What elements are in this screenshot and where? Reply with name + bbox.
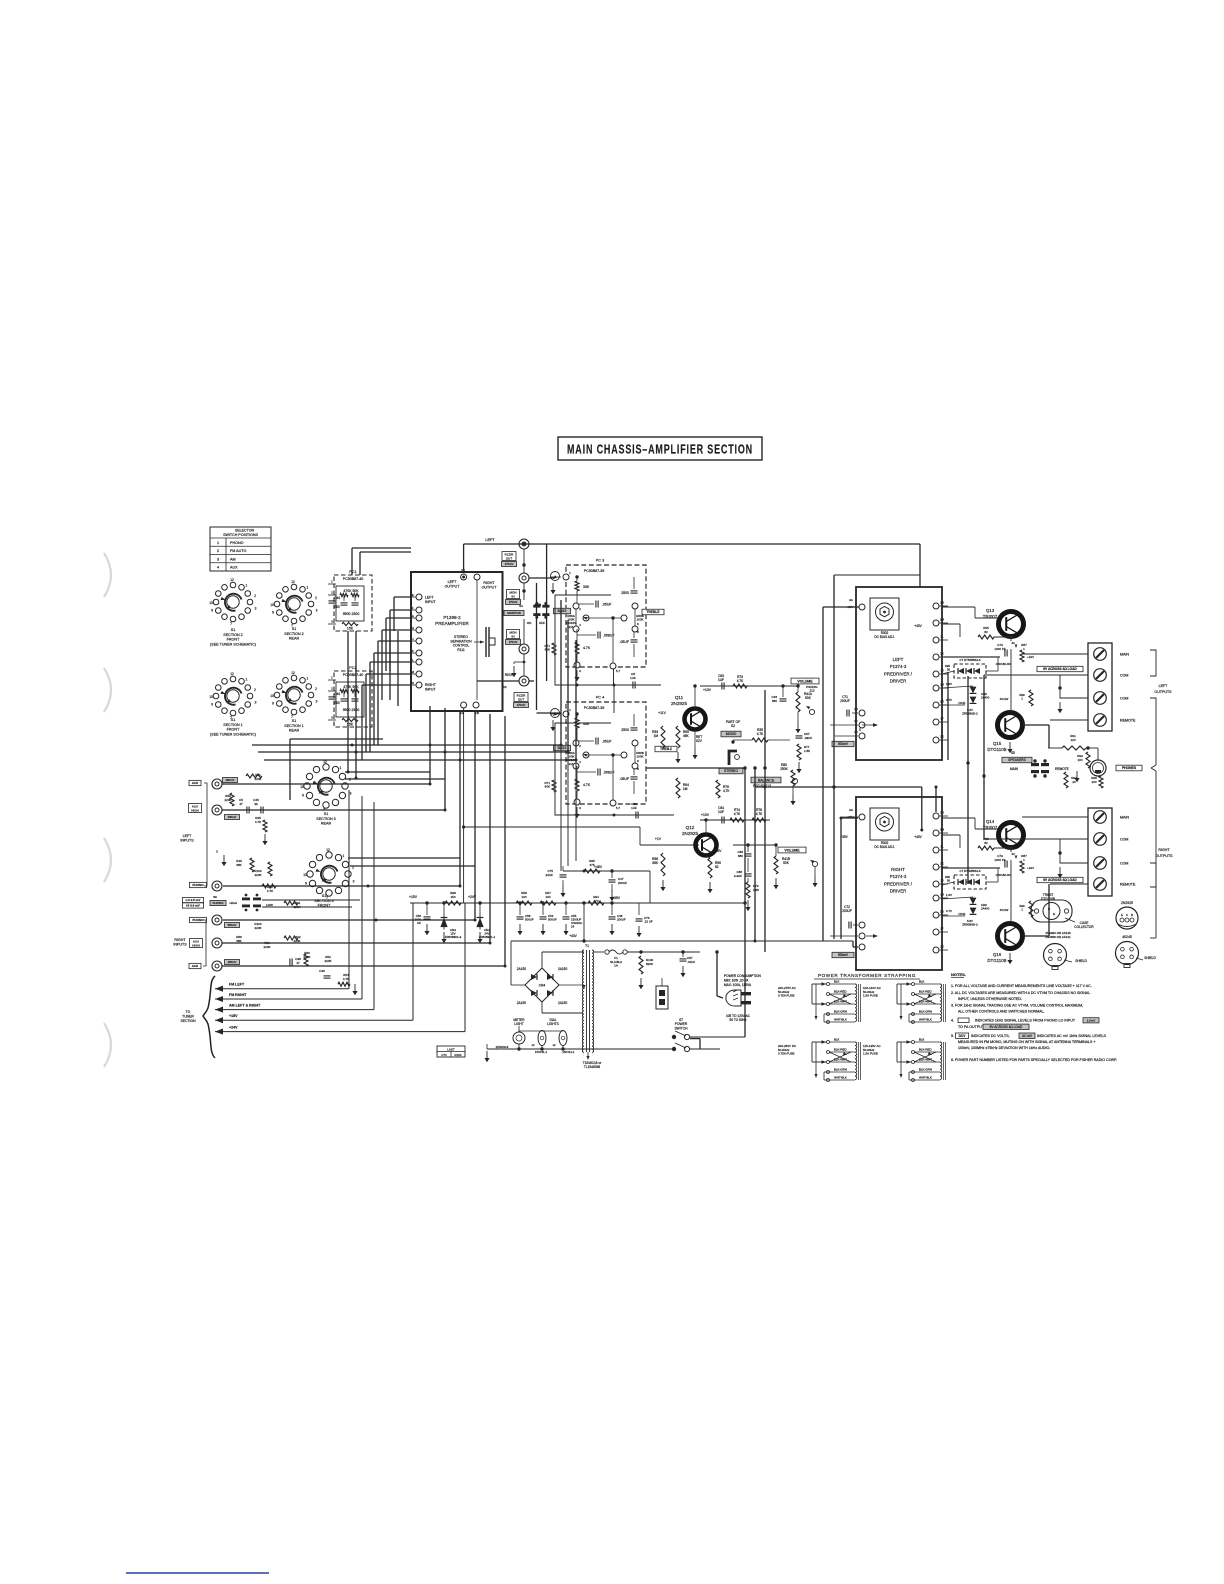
svg-text:COM: COM <box>1120 838 1128 842</box>
svg-text:PHONO: PHONO <box>192 918 204 922</box>
svg-text:47: 47 <box>239 802 243 806</box>
svg-text:MAIN: MAIN <box>1120 653 1129 657</box>
svg-text:PC 3: PC 3 <box>596 559 604 563</box>
svg-text:WHT-BLK: WHT-BLK <box>919 1018 932 1022</box>
svg-text:12: 12 <box>230 672 234 676</box>
svg-text:RIGHT: RIGHT <box>891 867 905 872</box>
svg-text:+1V: +1V <box>655 837 662 841</box>
svg-text:(SEE TUNER SCHEMATIC): (SEE TUNER SCHEMATIC) <box>210 642 256 646</box>
svg-text:9: 9 <box>272 701 274 705</box>
svg-text:NOTES.: NOTES. <box>951 972 966 977</box>
svg-text:PREAMPLIFIER: PREAMPLIFIER <box>435 621 469 626</box>
svg-text:+19V: +19V <box>1027 866 1034 870</box>
svg-text:2: 2 <box>254 594 256 598</box>
svg-text:39: 39 <box>947 667 951 671</box>
svg-text:DTG110B: DTG110B <box>1041 897 1055 901</box>
svg-text:10: 10 <box>300 785 304 789</box>
svg-text:MAIN CHASSIS–AMPLIFIER SECTION: MAIN CHASSIS–AMPLIFIER SECTION <box>567 442 753 457</box>
svg-text:TL1546038: TL1546038 <box>584 1065 600 1069</box>
svg-text:9: 9 <box>211 608 213 612</box>
svg-text:BLK-GRN: BLK-GRN <box>919 1068 932 1072</box>
svg-text:3N: 3N <box>940 811 944 815</box>
svg-text:SECTION 2: SECTION 2 <box>223 633 242 637</box>
svg-text:2A150: 2A150 <box>558 1001 567 1005</box>
svg-text:LIGHT: LIGHT <box>514 1022 523 1026</box>
svg-text:60K: 60K <box>545 648 550 652</box>
svg-text:S5: S5 <box>1011 751 1015 755</box>
svg-text:P1398-2: P1398-2 <box>443 615 461 620</box>
svg-text:LEFT: LEFT <box>485 538 495 542</box>
svg-text:RIGHT: RIGHT <box>425 683 437 687</box>
svg-text:5,7: 5,7 <box>616 669 621 673</box>
svg-text:10: 10 <box>270 603 274 607</box>
svg-text:12: 12 <box>326 848 330 852</box>
svg-text:RIGHT: RIGHT <box>483 581 495 585</box>
svg-text:820K: 820K <box>646 962 653 966</box>
svg-text:SHIELD: SHIELD <box>1144 956 1156 960</box>
svg-text:2: 2 <box>315 596 317 600</box>
svg-text:40: 40 <box>1011 852 1015 856</box>
svg-text:7: 7 <box>230 622 232 626</box>
svg-text:3F: 3F <box>940 927 944 931</box>
svg-text:170mV: 170mV <box>509 600 518 604</box>
svg-text:SECTION 1: SECTION 1 <box>284 724 303 728</box>
svg-text:LOW: LOW <box>266 903 273 907</box>
svg-text:560: 560 <box>334 701 340 705</box>
svg-text:12: 12 <box>291 671 295 675</box>
svg-text:SWITCH POSITIONS: SWITCH POSITIONS <box>223 533 258 537</box>
svg-text:170mV: 170mV <box>517 703 526 707</box>
svg-text:DRIVER: DRIVER <box>890 679 907 684</box>
svg-text:MAIN: MAIN <box>1010 767 1019 771</box>
svg-text:TUNER: TUNER <box>182 1014 194 1018</box>
svg-text:33K: 33K <box>583 585 590 589</box>
svg-text:Q15: Q15 <box>993 741 1002 746</box>
svg-text:INPUT: INPUT <box>425 688 436 692</box>
svg-text:PREDRIVER /: PREDRIVER / <box>884 671 913 676</box>
svg-text:S1: S1 <box>292 627 297 631</box>
svg-text:+39V: +39V <box>612 896 621 900</box>
svg-text:1C: 1C <box>503 685 507 689</box>
svg-text:250009-8: 250009-8 <box>496 1045 509 1049</box>
svg-text:CR4: CR4 <box>539 984 546 988</box>
svg-text:1.8K: 1.8K <box>753 888 759 892</box>
svg-text:C46: C46 <box>319 969 325 973</box>
svg-text:2: 2 <box>315 687 317 691</box>
svg-text:MONO: MONO <box>726 732 737 736</box>
svg-text:DC BIAS ADJ.: DC BIAS ADJ. <box>874 635 894 639</box>
svg-text:02V: 02V <box>696 739 703 743</box>
svg-text:82: 82 <box>715 865 719 869</box>
svg-text:C44: C44 <box>334 692 340 696</box>
svg-text:LO 2.5 mV: LO 2.5 mV <box>186 898 201 902</box>
svg-text:580mV: 580mV <box>228 923 237 927</box>
svg-text:1A: 1A <box>614 964 618 968</box>
svg-text:+43V: +43V <box>914 624 922 628</box>
svg-text:280mV: 280mV <box>228 815 237 819</box>
svg-text:S2: S2 <box>731 724 735 728</box>
svg-text:FM RIGHT: FM RIGHT <box>229 993 247 997</box>
svg-text:OUT: OUT <box>518 697 525 701</box>
svg-text:0.7V: 0.7V <box>946 909 952 913</box>
svg-text:100: 100 <box>1077 758 1082 762</box>
svg-text:LEFT: LEFT <box>448 580 458 584</box>
svg-text:AUX: AUX <box>192 781 199 785</box>
svg-text:HIGH: HIGH <box>192 943 200 947</box>
svg-text:Q13: Q13 <box>986 608 995 613</box>
svg-text:680: 680 <box>738 854 743 858</box>
svg-text:HIGH: HIGH <box>230 901 238 905</box>
svg-text:1UF: 1UF <box>718 810 724 814</box>
svg-text:4.7K: 4.7K <box>737 679 744 683</box>
svg-text:9: 9 <box>211 702 213 706</box>
svg-text:PREDRIVER /: PREDRIVER / <box>884 881 913 886</box>
svg-text:OFF: OFF <box>539 621 545 625</box>
svg-text:OUTPUTS: OUTPUTS <box>1154 690 1172 694</box>
svg-text:100mV, 100MHz ±75kHz DEVIATION: 100mV, 100MHz ±75kHz DEVIATION WITH 1kHz… <box>958 1046 1050 1050</box>
svg-text:68K: 68K <box>236 863 241 867</box>
svg-text:20: 20 <box>1072 780 1076 784</box>
svg-text:SECTION 1: SECTION 1 <box>223 723 242 727</box>
svg-text:INPUTS: INPUTS <box>180 839 194 843</box>
svg-text:3G: 3G <box>940 700 944 704</box>
svg-text:SECTION 2: SECTION 2 <box>284 632 303 636</box>
svg-text:3E: 3E <box>940 945 944 949</box>
svg-text:BLK: BLK <box>919 980 925 984</box>
svg-text:REMOTE: REMOTE <box>1055 767 1069 771</box>
svg-text:+10V: +10V <box>703 688 712 692</box>
svg-text:BLK-RED: BLK-RED <box>919 1048 932 1052</box>
svg-text:3H: 3H <box>940 893 944 897</box>
svg-text:C74: C74 <box>441 1053 447 1057</box>
svg-text:AM: AM <box>230 557 236 561</box>
svg-text:47: 47 <box>296 961 300 965</box>
svg-text:.05UF: .05UF <box>619 640 629 644</box>
svg-text:REAR: REAR <box>289 637 300 641</box>
svg-text:200UF: 200UF <box>618 881 627 885</box>
svg-text:+24V: +24V <box>229 1026 238 1030</box>
svg-text:2.5mV: 2.5mV <box>1087 1018 1096 1022</box>
svg-text:12: 12 <box>291 580 295 584</box>
svg-text:3: 3 <box>255 607 257 611</box>
svg-text:+11V: +11V <box>658 711 666 715</box>
svg-text:60K: 60K <box>545 785 550 789</box>
svg-text:1UF: 1UF <box>630 676 636 680</box>
svg-text:WHT-BLK: WHT-BLK <box>834 1018 847 1022</box>
svg-text:100: 100 <box>1091 780 1096 784</box>
svg-text:HIGH: HIGH <box>191 808 199 812</box>
svg-text:50K: 50K <box>805 696 812 700</box>
svg-text:BASS: BASS <box>558 746 568 750</box>
svg-text:INPUTS: INPUTS <box>173 943 187 947</box>
svg-text:C7 DT50B843-6: C7 DT50B843-6 <box>960 658 981 662</box>
svg-text:DTG110B: DTG110B <box>987 747 1006 752</box>
svg-text:LEFT: LEFT <box>183 834 193 838</box>
svg-text:68K: 68K <box>652 861 659 865</box>
svg-text:2500: 2500 <box>621 591 629 595</box>
svg-text:COM: COM <box>1120 862 1128 866</box>
svg-text:STEREO: STEREO <box>724 769 738 773</box>
svg-text:INDICATES 1kHz SIGNAL LEVEL: INDICATES 1kHz SIGNAL LEVELS FROM PHONO … <box>975 1019 1076 1023</box>
svg-text:.05UF: .05UF <box>619 777 629 781</box>
svg-text:.01UF: .01UF <box>687 960 695 964</box>
svg-text:3F: 3F <box>940 717 944 721</box>
svg-text:1.5A FUSE: 1.5A FUSE <box>863 1052 878 1056</box>
svg-text:1: 1 <box>343 854 345 858</box>
svg-text:1000 PF: 1000 PF <box>994 858 1006 862</box>
svg-text:2A150: 2A150 <box>517 967 526 971</box>
svg-text:50 TO 60Hz: 50 TO 60Hz <box>729 1018 746 1022</box>
svg-text:5,7: 5,7 <box>616 806 621 810</box>
svg-text:WHT-BLK: WHT-BLK <box>919 1076 932 1080</box>
svg-text:0.7V: 0.7V <box>946 698 952 702</box>
svg-text:OUT: OUT <box>506 556 513 560</box>
svg-text:46K: 46K <box>683 734 690 738</box>
svg-text:INDICATES DC VOLTS,: INDICATES DC VOLTS, <box>971 1034 1010 1038</box>
svg-text:PC50B87-39: PC50B87-39 <box>584 569 605 573</box>
svg-text:1: 1 <box>245 584 247 588</box>
svg-text:40mW: 40mW <box>1000 697 1009 701</box>
svg-text:9: 9 <box>302 793 304 797</box>
svg-text:+43V: +43V <box>569 934 577 938</box>
svg-text:AM LEFT & RIGHT: AM LEFT & RIGHT <box>229 1004 261 1008</box>
svg-text:+15V: +15V <box>409 895 418 899</box>
svg-text:500UF: 500UF <box>548 918 557 922</box>
svg-text:3M: 3M <box>940 828 945 832</box>
svg-text:S6: S6 <box>213 895 217 899</box>
svg-text:.05UF: .05UF <box>602 740 612 744</box>
svg-text:250K: 250K <box>780 767 788 771</box>
svg-text:S1: S1 <box>231 628 236 632</box>
svg-text:SECTION 3: SECTION 3 <box>314 899 333 903</box>
svg-text:CR11: CR11 <box>958 701 966 705</box>
svg-text:PC 4: PC 4 <box>596 696 604 700</box>
svg-text:SWITCH: SWITCH <box>674 1026 688 1030</box>
svg-text:211: 211 <box>569 625 574 629</box>
svg-text:2N2925: 2N2925 <box>682 831 699 836</box>
svg-text:500mV: 500mV <box>838 953 849 957</box>
svg-text:170mV: 170mV <box>505 562 514 566</box>
svg-text:40245: 40245 <box>1122 935 1132 939</box>
svg-text:9500 2300: 9500 2300 <box>343 708 360 712</box>
svg-text:3A: 3A <box>849 808 853 812</box>
svg-text:6V ACROSS 4Ω LOAD: 6V ACROSS 4Ω LOAD <box>1043 878 1077 882</box>
svg-text:470: 470 <box>593 899 598 903</box>
svg-text:INDICATES AC mV 1kHz SIGNAL LE: INDICATES AC mV 1kHz SIGNAL LEVELS <box>1037 1034 1107 1038</box>
svg-text:COLLECTOR: COLLECTOR <box>1074 925 1094 929</box>
svg-text:T1: T1 <box>585 944 589 948</box>
svg-text:LEFT: LEFT <box>893 657 904 662</box>
svg-text:2A400: 2A400 <box>981 696 990 700</box>
svg-text:560: 560 <box>334 605 340 609</box>
svg-text:SECTION: SECTION <box>180 1019 196 1023</box>
svg-text:SELECTOR: SELECTOR <box>235 529 255 533</box>
svg-text:100K: 100K <box>636 755 643 759</box>
svg-text:S4: S4 <box>519 604 523 608</box>
svg-text:MONITOR: MONITOR <box>507 611 521 615</box>
svg-text:9: 9 <box>272 610 274 614</box>
svg-text:3K: 3K <box>940 652 944 656</box>
svg-text:2N3566 OR AF121: 2N3566 OR AF121 <box>1045 935 1071 939</box>
svg-text:1.5A FUSE: 1.5A FUSE <box>863 994 878 998</box>
svg-text:120: 120 <box>1070 738 1075 742</box>
svg-text:.22UF: .22UF <box>545 873 553 877</box>
svg-text:C44: C44 <box>334 596 340 600</box>
svg-text:B: B <box>1131 913 1133 917</box>
svg-text:+19V: +19V <box>1027 655 1034 659</box>
svg-text:SHIELD: SHIELD <box>1075 959 1087 963</box>
svg-text:POWER CONSUMPTION: POWER CONSUMPTION <box>724 974 762 978</box>
svg-text:BLK-RED: BLK-RED <box>834 990 847 994</box>
svg-text:.33UF: .33UF <box>804 736 812 740</box>
svg-text:1M: 1M <box>683 787 688 791</box>
svg-text:10: 10 <box>209 601 213 605</box>
svg-text:4.7K: 4.7K <box>255 820 261 824</box>
svg-text:500mV: 500mV <box>838 742 849 746</box>
svg-text:FM LEFT: FM LEFT <box>229 983 245 987</box>
svg-text:4: 4 <box>217 566 219 570</box>
svg-text:REMOTE: REMOTE <box>1120 883 1136 887</box>
svg-text:2500: 2500 <box>621 728 629 732</box>
svg-text:PHONO: PHONO <box>192 883 204 887</box>
svg-text:2: 2 <box>254 688 256 692</box>
svg-text:3. FOR 1kHz SIGNAL TRACING USE: 3. FOR 1kHz SIGNAL TRACING USE AC VTVM, … <box>951 1004 1083 1008</box>
svg-text:REAR: REAR <box>321 822 332 826</box>
svg-text:1: 1 <box>245 678 247 682</box>
svg-text:S1: S1 <box>292 719 297 723</box>
svg-text:2A150: 2A150 <box>558 967 567 971</box>
svg-text:P1374-3: P1374-3 <box>890 664 907 669</box>
svg-text:DC BIAS ADJ.: DC BIAS ADJ. <box>874 845 894 849</box>
svg-text:C: C <box>1126 913 1128 917</box>
svg-text:S1: S1 <box>231 718 236 722</box>
svg-text:OUTPUT: OUTPUT <box>445 585 461 589</box>
svg-text:3: 3 <box>316 609 318 613</box>
svg-text:SECTION 3: SECTION 3 <box>316 817 335 821</box>
svg-text:3G: 3G <box>940 910 944 914</box>
svg-text:3: 3 <box>316 700 318 704</box>
svg-text:+43V: +43V <box>914 835 922 839</box>
svg-text:LIGHTS: LIGHTS <box>547 1022 559 1026</box>
svg-text:4.7K: 4.7K <box>756 812 763 816</box>
svg-text:AUX: AUX <box>192 964 199 968</box>
svg-text:4.7K: 4.7K <box>267 889 273 893</box>
svg-text:BLK-GRN: BLK-GRN <box>919 1010 932 1014</box>
svg-text:500UF: 500UF <box>525 918 534 922</box>
svg-text:1M: 1M <box>654 734 659 738</box>
svg-text:3: 3 <box>350 792 352 796</box>
svg-text:4.7K: 4.7K <box>734 812 741 816</box>
svg-text:12: 12 <box>552 1043 556 1047</box>
svg-text:50K: 50K <box>783 861 790 865</box>
svg-text:Q16: Q16 <box>993 952 1002 957</box>
svg-text:1.6V: 1.6V <box>946 682 952 686</box>
svg-text:3: 3 <box>217 557 219 561</box>
svg-text:3M: 3M <box>940 618 945 622</box>
svg-text:+15V: +15V <box>229 1014 238 1018</box>
svg-text:1: 1 <box>340 766 342 770</box>
svg-text:MAIN: MAIN <box>1120 816 1129 820</box>
svg-text:BLK: BLK <box>834 980 840 984</box>
svg-text:TREB.2: TREB.2 <box>660 747 672 751</box>
svg-text:SPEAKERS: SPEAKERS <box>1008 758 1027 762</box>
svg-text:40mW: 40mW <box>1000 908 1009 912</box>
svg-text:100: 100 <box>545 895 550 899</box>
svg-text:1B: 1B <box>475 711 479 715</box>
svg-text:POWER TRANSFORMER STRAPPING: POWER TRANSFORMER STRAPPING <box>818 973 916 978</box>
svg-text:DTG110B: DTG110B <box>987 958 1006 963</box>
svg-text:VOLUME: VOLUME <box>784 848 800 852</box>
svg-text:3N: 3N <box>940 601 944 605</box>
svg-text:(SEE TUNER SCHEMATIC): (SEE TUNER SCHEMATIC) <box>210 732 256 736</box>
svg-text:220K: 220K <box>324 959 331 963</box>
svg-text:4.7K: 4.7K <box>583 783 591 787</box>
svg-text:FRONT: FRONT <box>227 638 240 642</box>
svg-text:TO PA OUTPUT: TO PA OUTPUT <box>958 1025 985 1029</box>
svg-text:1.8K: 1.8K <box>804 749 810 753</box>
svg-text:3K: 3K <box>940 862 944 866</box>
svg-text:IN: IN <box>512 634 515 638</box>
svg-text:1. FOR ALL VOLTAGE AND CURRENT: 1. FOR ALL VOLTAGE AND CURRENT MEASUREME… <box>951 984 1092 988</box>
svg-text:-0.35V: -0.35V <box>712 849 722 853</box>
svg-text:Q14: Q14 <box>986 819 995 824</box>
svg-text:E: E <box>1121 913 1123 917</box>
svg-text:BLK-GRN: BLK-GRN <box>834 1068 847 1072</box>
svg-text:+10V: +10V <box>701 813 710 817</box>
svg-text:6. FISHER PART NUMBER LISTED F: 6. FISHER PART NUMBER LISTED FOR PARTS S… <box>951 1058 1117 1062</box>
svg-text:Q11: Q11 <box>675 695 684 700</box>
svg-text:UF: UF <box>417 921 421 925</box>
svg-text:PC50B87-40: PC50B87-40 <box>343 673 364 677</box>
svg-text:10: 10 <box>303 873 307 877</box>
svg-text:10: 10 <box>209 695 213 699</box>
svg-text:+48V: +48V <box>594 865 603 869</box>
svg-text:PC1: PC1 <box>349 570 356 574</box>
svg-text:4.7K: 4.7K <box>723 789 730 793</box>
svg-text:REAR: REAR <box>289 729 300 733</box>
svg-text:P1374-3: P1374-3 <box>890 874 907 879</box>
svg-text:C7 DT50B843-6: C7 DT50B843-6 <box>960 869 981 873</box>
svg-text:100: 100 <box>521 895 526 899</box>
svg-text:200UF: 200UF <box>617 918 626 922</box>
svg-text:E: E <box>1053 912 1055 916</box>
svg-text:9500 2300: 9500 2300 <box>343 612 360 616</box>
svg-text:3: 3 <box>255 701 257 705</box>
svg-text:RIGHT: RIGHT <box>174 938 186 942</box>
svg-text:REMOTE: REMOTE <box>1120 719 1136 723</box>
svg-text:DCV: DCV <box>959 1034 967 1038</box>
svg-text:BLK: BLK <box>834 1038 840 1042</box>
svg-text:220K: 220K <box>263 945 270 949</box>
svg-text:40: 40 <box>1011 641 1015 645</box>
svg-text:2N2925: 2N2925 <box>671 701 688 706</box>
svg-text:39: 39 <box>947 878 951 882</box>
svg-text:220K: 220K <box>254 873 261 877</box>
svg-text:ZR50B901-3: ZR50B901-3 <box>445 935 462 939</box>
svg-text:4.7K: 4.7K <box>583 646 591 650</box>
svg-text:220K: 220K <box>254 926 261 930</box>
svg-text:AUX: AUX <box>230 566 238 570</box>
svg-text:0.75A FUSE: 0.75A FUSE <box>778 1052 795 1056</box>
svg-text:LAST: LAST <box>447 1047 455 1051</box>
svg-text:3L: 3L <box>940 845 944 849</box>
svg-text:AC mV: AC mV <box>1022 1034 1033 1038</box>
svg-text:BLK-RED: BLK-RED <box>919 990 932 994</box>
svg-text:.22 UF: .22 UF <box>644 920 653 924</box>
svg-text:200UF: 200UF <box>840 699 850 703</box>
svg-text:BLK-GRN: BLK-GRN <box>834 1010 847 1014</box>
svg-text:ALL OTHER CONTROLS AND SWITCHE: ALL OTHER CONTROLS AND SWITCHES NORMAL. <box>958 1010 1045 1014</box>
